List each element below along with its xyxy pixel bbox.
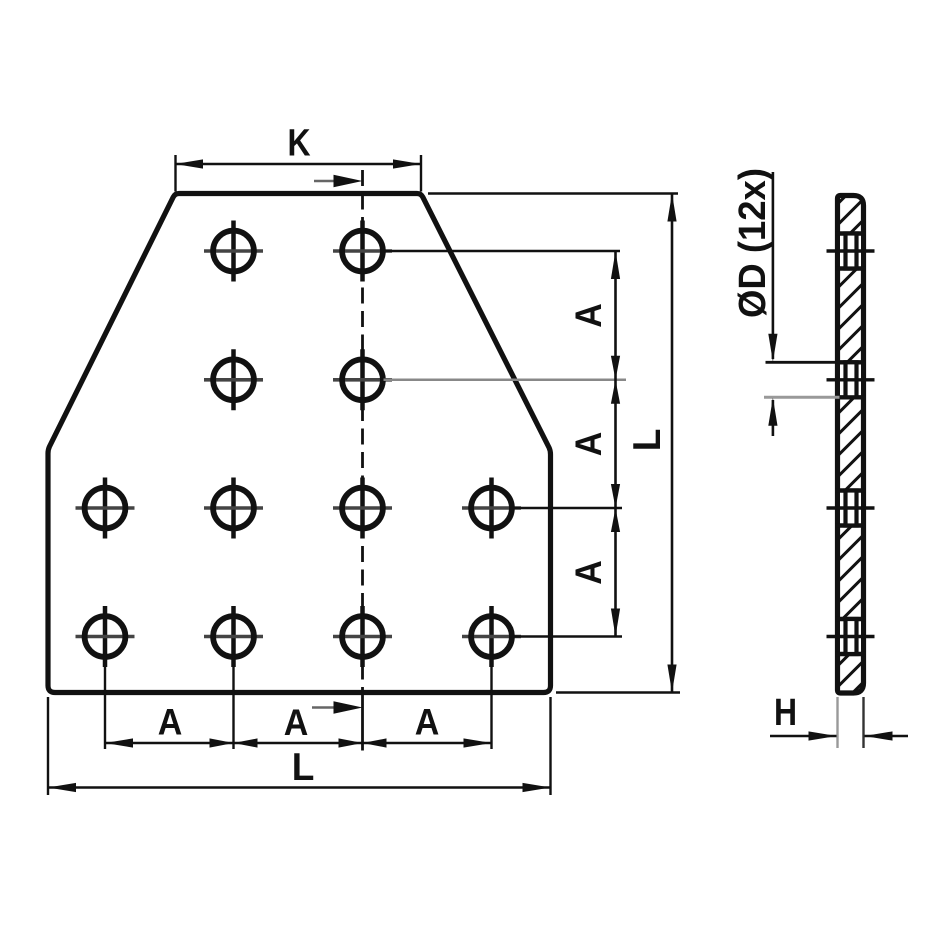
hole 7 (col 3, row 3) bbox=[333, 478, 392, 539]
hole 9 (col 1, row 4) bbox=[76, 606, 135, 667]
L dimension bottom extension bbox=[556, 691, 680, 693]
svg-text:L: L bbox=[292, 746, 315, 789]
svg-text:A: A bbox=[284, 702, 309, 744]
bottom L dimension line with arrows bbox=[48, 783, 551, 792]
hole 6 (col 2, row 3) bbox=[204, 478, 263, 539]
leader line row 4 bbox=[513, 635, 623, 638]
dimension K extension line left bbox=[174, 155, 176, 192]
bottom extension line col 4 bbox=[490, 640, 492, 749]
bottom L extension right bbox=[549, 697, 551, 795]
hole 11 (col 3, row 4) bbox=[333, 606, 392, 667]
svg-text:K: K bbox=[287, 122, 310, 164]
hole 10 (col 2, row 4) bbox=[204, 606, 263, 667]
OD extension line (hole bottom edge, gray) bbox=[764, 396, 840, 399]
bottom A dimension arrowheads bbox=[105, 738, 492, 747]
svg-text:ØD (12x): ØD (12x) bbox=[730, 168, 773, 318]
L dimension top extension bbox=[428, 192, 678, 194]
hole 2 (col 3, row 1) bbox=[333, 221, 392, 282]
side view hole section row 2 bbox=[827, 362, 875, 397]
leader line row 2 (gray) bbox=[384, 379, 627, 382]
H dimension line with inward arrows bbox=[770, 731, 908, 740]
bottom extension line col 2 bbox=[232, 640, 234, 749]
side view hole section row 4 bbox=[827, 619, 875, 654]
OD extension line (hole top edge, black) bbox=[766, 361, 840, 364]
L dimension line (right) with arrows bbox=[667, 194, 676, 693]
hole 12 (col 4, row 4) bbox=[462, 606, 521, 667]
hole 5 (col 1, row 3) bbox=[76, 478, 135, 539]
centerline pointer arrow (top) bbox=[314, 175, 363, 188]
side view hole section row 3 bbox=[827, 491, 875, 526]
svg-text:A: A bbox=[568, 560, 610, 585]
hole 4 (col 3, row 2) bbox=[333, 349, 392, 410]
bottom extension line col 1 bbox=[104, 640, 106, 749]
leader line row 1 bbox=[384, 250, 621, 253]
right A dimension chain line bbox=[614, 251, 617, 637]
right A dimension arrowheads bbox=[611, 251, 620, 637]
bottom L extension left bbox=[47, 697, 49, 795]
svg-text:L: L bbox=[626, 429, 669, 452]
svg-text:A: A bbox=[568, 303, 610, 328]
plate outline (front view) bbox=[48, 194, 551, 693]
hole 8 (col 4, row 3) bbox=[462, 478, 521, 539]
svg-text:A: A bbox=[568, 432, 610, 457]
svg-text:A: A bbox=[158, 701, 183, 743]
OD dimension line with arrows bbox=[768, 172, 777, 436]
dimension K extension line right bbox=[420, 155, 422, 192]
svg-text:H: H bbox=[774, 691, 797, 733]
svg-text:A: A bbox=[415, 701, 440, 743]
leader line row 3 bbox=[513, 507, 623, 510]
hole 1 (col 2, row 1) bbox=[204, 221, 263, 282]
centerline (dashed, through hole column 3) bbox=[361, 170, 364, 693]
side view hole section row 1 bbox=[827, 234, 875, 269]
hole 3 (col 2, row 2) bbox=[204, 349, 263, 410]
H extension line right bbox=[862, 697, 864, 748]
centerline pointer arrow (bottom) bbox=[312, 701, 363, 714]
H extension line left (gray) bbox=[836, 697, 838, 748]
dimension K line with arrows bbox=[175, 159, 421, 168]
bottom A dimension chain line bbox=[105, 742, 492, 745]
